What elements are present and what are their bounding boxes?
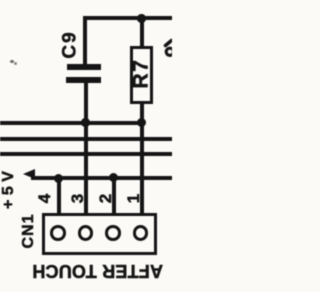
node junction H1 x pin3: [81, 118, 90, 127]
+5V arrow head: [23, 169, 35, 179]
wire pin4 vertical: [57, 177, 61, 215]
pin number 3: [69, 194, 86, 203]
node junction on top rail: [137, 14, 146, 23]
capacitor C9 label: [60, 30, 79, 60]
wire C9 bottom / pin3 vertical: [84, 82, 88, 215]
node junction H1 x pin1: [137, 118, 146, 127]
wire pin2 vertical: [112, 177, 116, 215]
net name AFTER TOUCH: [35, 262, 163, 280]
scan speckle: [10, 60, 14, 63]
wire bus H2: [0, 137, 172, 141]
connector CN1 label: [21, 212, 37, 250]
resistor R7 label: [131, 58, 152, 90]
resistor R7 top lead: [140, 16, 144, 47]
wire bus H1: [0, 121, 143, 125]
node junction L4 x pin4: [54, 174, 63, 183]
pin number 4: [36, 194, 53, 203]
capacitor C9 bottom plate: [66, 77, 101, 83]
pin 2 circle: [105, 225, 121, 241]
wire top rail from C9 corner to right edge: [83, 16, 172, 20]
wire bus H3: [0, 152, 172, 156]
resistor R7 bottom lead / pin1 vertical: [140, 103, 144, 215]
partial label at right edge: [160, 36, 172, 60]
pin 4 circle: [50, 225, 66, 241]
resistor R7 body: [130, 46, 154, 104]
capacitor C9 top lead: [83, 16, 87, 65]
node junction L4 x pin2: [109, 173, 118, 182]
capacitor C9 top plate: [67, 64, 101, 70]
wire +5V rail L4: [31, 176, 172, 180]
pin 1 circle: [133, 225, 149, 241]
pin number 2: [97, 194, 114, 203]
connector CN1 body: [42, 213, 157, 255]
pin number 1: [125, 194, 142, 203]
pin 3 circle: [78, 225, 94, 241]
+5V supply label: [1, 169, 17, 209]
